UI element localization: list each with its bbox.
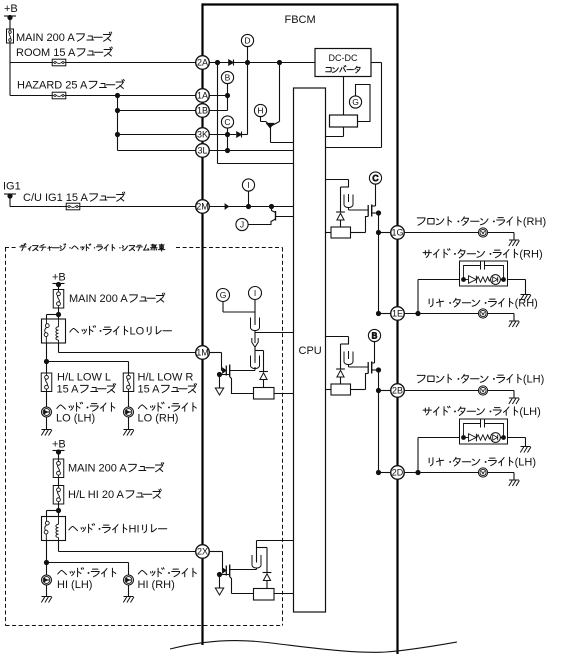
svg-text:(RH): (RH) — [523, 216, 546, 228]
svg-text:LO: LO — [130, 326, 145, 338]
svg-text:H/L LOW L: H/L LOW L — [57, 372, 111, 384]
svg-text:1B: 1B — [197, 106, 208, 116]
svg-text:2M: 2M — [196, 202, 209, 212]
svg-text:1E: 1E — [392, 309, 403, 319]
svg-text:G: G — [220, 290, 227, 300]
svg-text:D: D — [244, 36, 250, 46]
svg-text:I: I — [247, 180, 249, 190]
svg-text:C: C — [224, 117, 230, 127]
svg-text:HI (RH): HI (RH) — [138, 579, 175, 591]
svg-text:+B: +B — [4, 3, 18, 15]
svg-text:LO (RH): LO (RH) — [138, 413, 179, 425]
svg-text:2B: 2B — [392, 386, 403, 396]
svg-text:+B: +B — [52, 272, 66, 284]
svg-text:2X: 2X — [197, 547, 208, 557]
svg-text:B: B — [225, 73, 231, 83]
svg-text:1G: 1G — [391, 228, 403, 238]
svg-text:(RH): (RH) — [515, 298, 538, 310]
svg-text:+B: +B — [52, 439, 66, 451]
svg-text:(LH): (LH) — [515, 457, 536, 469]
svg-text:HAZARD 25 A: HAZARD 25 A — [17, 80, 88, 92]
svg-text:3L: 3L — [197, 146, 207, 156]
svg-text:MAIN 200 A: MAIN 200 A — [16, 32, 75, 44]
svg-text:CPU: CPU — [299, 345, 322, 357]
svg-text:B: B — [372, 331, 378, 341]
svg-text:HI: HI — [129, 524, 140, 536]
svg-text:MAIN 200 A: MAIN 200 A — [68, 463, 127, 475]
svg-text:15 A: 15 A — [57, 384, 80, 396]
svg-text:H: H — [257, 106, 263, 116]
svg-text:3K: 3K — [197, 130, 208, 140]
svg-text:IG1: IG1 — [3, 181, 21, 193]
svg-text:H/L HI 20 A: H/L HI 20 A — [68, 489, 125, 501]
svg-text:(RH): (RH) — [519, 249, 542, 261]
svg-text:HI (LH): HI (LH) — [57, 579, 92, 591]
svg-text:15 A: 15 A — [138, 384, 161, 396]
svg-text:C: C — [372, 173, 378, 183]
svg-text:FBCM: FBCM — [285, 14, 316, 26]
svg-text:C/U IG1 15 A: C/U IG1 15 A — [23, 192, 88, 204]
svg-text:I: I — [254, 288, 256, 298]
svg-text:1M: 1M — [196, 348, 209, 358]
svg-text:J: J — [240, 220, 244, 230]
svg-text:LO (LH): LO (LH) — [56, 413, 95, 425]
svg-text:(LH): (LH) — [523, 374, 544, 386]
svg-text:2D: 2D — [392, 468, 404, 478]
svg-text:ROOM 15 A: ROOM 15 A — [16, 47, 76, 59]
svg-text:MAIN 200 A: MAIN 200 A — [69, 293, 128, 305]
svg-text:DC-DC: DC-DC — [329, 53, 358, 63]
svg-text:(LH): (LH) — [519, 406, 540, 418]
svg-text:2A: 2A — [197, 58, 208, 68]
svg-text:G: G — [352, 97, 359, 107]
svg-text:H/L LOW R: H/L LOW R — [138, 372, 194, 384]
svg-text:1A: 1A — [197, 91, 208, 101]
